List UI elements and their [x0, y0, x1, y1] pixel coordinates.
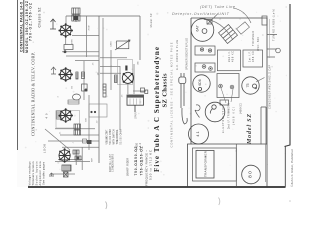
tube V1 6A7	[58, 23, 73, 38]
svg-text:TUNING KNOB (Left): TUNING KNOB (Left)	[273, 9, 276, 41]
faint outer right line	[269, 19, 271, 58]
svg-text:TONE CONTROL: TONE CONTROL	[117, 129, 119, 145]
wire	[86, 16, 88, 57]
small box	[83, 139, 87, 143]
voice coil box	[62, 165, 71, 171]
wire	[48, 140, 99, 142]
small blob component	[87, 140, 92, 144]
75 leader	[256, 78, 265, 83]
capacitor C1	[82, 84, 88, 91]
scan noise	[25, 5, 287, 184]
tube V2 6D6	[58, 67, 73, 82]
IF can B1	[72, 8, 80, 21]
wire	[68, 101, 79, 103]
svg-text:750-OZ: 750-OZ	[134, 160, 138, 175]
wire	[133, 90, 146, 92]
svg-text:CONTINENTAL LICENSE – SEE SPEC: CONTINENTAL LICENSE – SEE SPECIAL NOTES …	[170, 42, 174, 147]
wire top bus	[66, 15, 140, 17]
trimmer box 3	[217, 74, 239, 98]
svg-text:A.C. CORD & PLUG: A.C. CORD & PLUG	[176, 40, 179, 70]
wire loop rect	[89, 104, 107, 117]
resistor R1	[76, 72, 78, 79]
svg-text:4 1: 4 1	[195, 130, 200, 136]
svg-text:VOLUME CONT.: VOLUME CONT.	[107, 129, 109, 144]
svg-text:75: 75	[246, 84, 250, 88]
wire	[65, 16, 67, 24]
tuning capacitor	[115, 40, 130, 50]
wire	[110, 50, 112, 90]
bottom-right corner vertical	[284, 147, 286, 188]
svg-text:756-OZ: 756-OZ	[140, 160, 144, 175]
wire	[100, 66, 120, 68]
IF can B3	[73, 150, 81, 160]
svg-text:156-OZ: 156-OZ	[140, 146, 144, 161]
svg-text:OSC. 600: OSC. 600	[257, 36, 260, 51]
svg-text:(456KC): (456KC)	[240, 103, 243, 114]
svg-text:2nd I.F. TRIMMERS: 2nd I.F. TRIMMERS	[228, 103, 231, 129]
page tint	[17, 0, 290, 187]
svg-text:456 KC: 456 KC	[252, 51, 255, 62]
left rule	[17, 0, 19, 150]
svg-text:TRIMMER: TRIMMER	[252, 31, 255, 46]
junction dots	[90, 111, 92, 113]
component row	[68, 100, 79, 104]
box with X	[64, 172, 69, 177]
right page edge	[285, 4, 291, 147]
svg-text:GANG: GANG	[109, 41, 112, 47]
resistor R1b	[82, 72, 85, 79]
svg-text:SPEAKER SOCKET & PLUG: SPEAKER SOCKET & PLUG	[186, 38, 189, 70]
wire	[100, 72, 121, 74]
svg-text:6D6: 6D6	[198, 79, 202, 85]
top edge component	[207, 20, 212, 25]
antenna A4	[49, 173, 54, 176]
trimmer box 1	[195, 63, 215, 72]
wire	[72, 34, 99, 36]
divider 2	[264, 144, 266, 182]
svg-text:1M: 1M	[97, 72, 99, 75]
wire	[55, 161, 90, 163]
svg-text:Model SZ: Model SZ	[247, 114, 253, 145]
resistor stack	[103, 84, 106, 97]
antenna A2	[51, 67, 56, 74]
6D6 circle	[193, 75, 210, 92]
svg-text:(DET) Tube Line: (DET) Tube Line	[200, 5, 235, 9]
shield rect V3	[118, 60, 133, 85]
wire	[75, 17, 77, 22]
svg-text:CONDENSERS: CONDENSERS	[113, 154, 115, 172]
tube V4 42	[58, 108, 73, 123]
svg-text:8 0: 8 0	[248, 171, 254, 178]
header rule	[23, 0, 25, 53]
svg-text:500,000 OHM: 500,000 OHM	[110, 129, 112, 144]
speaker plug curl	[182, 108, 187, 124]
svg-text:See index pages: See index pages	[42, 161, 46, 185]
upper trimmer box	[195, 46, 215, 55]
svg-text:LOOK: LOOK	[43, 144, 47, 153]
wire	[75, 150, 77, 165]
grid cap V3	[125, 66, 127, 71]
svg-text:Trimmers location: Trimmers location	[31, 161, 35, 186]
tube V5 80	[59, 148, 70, 163]
svg-text:.1MFD: .1MFD	[71, 38, 73, 45]
tube V3 75	[122, 72, 133, 83]
output tube circle	[205, 102, 225, 122]
svg-text:Alignment data: Alignment data	[38, 161, 42, 186]
curl mark 1	[106, 202, 107, 210]
transformer outer box	[193, 148, 237, 181]
divider	[235, 144, 237, 186]
trimmer leaders	[221, 88, 233, 103]
svg-text:CONTINENTAL PAGE 14-5: CONTINENTAL PAGE 14-5	[20, 2, 24, 52]
wire	[83, 61, 85, 100]
svg-text:©John F. Rider, Publisher: ©John F. Rider, Publisher	[290, 149, 294, 187]
small box below trimmers	[220, 100, 229, 105]
curl mark 2	[219, 198, 220, 206]
wire	[50, 173, 75, 175]
svg-text:Detector-Oscillator UNIT: Detector-Oscillator UNIT	[172, 12, 230, 16]
svg-text:TRANSFORMER: TRANSFORMER	[204, 150, 208, 177]
svg-text:750-OZ,756-OZ: 750-OZ,756-OZ	[28, 3, 32, 41]
AC plug	[179, 73, 186, 108]
svg-text:SZ Chassis: SZ Chassis	[161, 73, 168, 107]
resistor R2	[115, 75, 118, 83]
speaker output transformer	[127, 95, 144, 112]
wire	[60, 134, 99, 136]
bottom page edge	[28, 186, 285, 188]
scattered component value labels	[57, 25, 139, 162]
tiny marks	[136, 142, 143, 150]
IF box 4	[217, 50, 240, 71]
svg-text:CONDENSER AND SHIELD CAP: CONDENSER AND SHIELD CAP	[269, 65, 272, 109]
wire	[66, 55, 99, 57]
oval can	[73, 94, 81, 100]
wire	[65, 36, 67, 45]
svg-text:CONTINENTAL RADIO & TELEV. COR: CONTINENTAL RADIO & TELEV. CORP.	[30, 52, 35, 136]
svg-text:Chassis SZ: Chassis SZ	[37, 8, 41, 28]
coil box left of V4	[56, 111, 61, 119]
svg-text:WITH SWITCH: WITH SWITCH	[114, 129, 116, 144]
leader A	[233, 8, 251, 23]
dial cord arc	[204, 20, 233, 41]
wire	[81, 147, 83, 170]
svg-text:Model SZ: Model SZ	[149, 13, 153, 27]
svg-text:150-OZ: 150-OZ	[134, 146, 138, 161]
svg-text:(456 KC): (456 KC)	[233, 107, 236, 125]
svg-text:456 KC: 456 KC	[232, 51, 235, 62]
parts list block	[107, 129, 123, 145]
svg-text:40: 40	[45, 113, 49, 119]
svg-text:6A7: 6A7	[196, 25, 200, 31]
wire	[100, 57, 127, 59]
wire	[62, 146, 99, 148]
wire	[133, 64, 135, 94]
svg-text:Voltage readings: Voltage readings	[28, 161, 32, 186]
chassis outline	[188, 18, 268, 187]
knob ticks	[267, 35, 280, 58]
svg-text:250M: 250M	[88, 25, 90, 30]
wire	[119, 66, 121, 130]
component block	[64, 45, 73, 53]
right bracket	[261, 107, 266, 145]
wire	[58, 159, 82, 161]
6D6 grid curl	[195, 105, 200, 118]
slanted bracket 2	[237, 22, 250, 34]
wire	[102, 18, 104, 90]
svg-text:SPKR: SPKR	[135, 112, 138, 119]
resistor R3	[141, 88, 148, 94]
antenna A1	[50, 19, 56, 29]
wire	[75, 60, 99, 62]
svg-text:50M: 50M	[85, 118, 87, 122]
slanted condenser assembly	[219, 24, 238, 43]
41 circle	[189, 124, 209, 144]
svg-text:Socket layouts: Socket layouts	[35, 161, 39, 186]
wire	[55, 128, 95, 130]
IF can B2	[74, 124, 81, 135]
IF box 5	[243, 50, 263, 67]
shield rect V4	[56, 111, 80, 129]
wire	[88, 95, 90, 150]
wire	[62, 51, 99, 53]
dot mark	[289, 200, 291, 202]
wire right bus	[98, 16, 100, 163]
knob box top	[262, 16, 267, 25]
75 circle	[242, 77, 259, 94]
leader B	[207, 14, 218, 25]
speaker circle	[191, 19, 214, 42]
transformer inner box	[196, 151, 214, 179]
wire	[139, 16, 141, 60]
svg-text:JOHN F. RIDER: JOHN F. RIDER	[128, 158, 130, 176]
leader diagonal	[45, 129, 70, 150]
svg-text:ELECTROLYTIC: ELECTROLYTIC	[222, 107, 225, 133]
svg-text:50,000 OHM: 50,000 OHM	[121, 129, 123, 144]
80 circle	[242, 165, 261, 184]
wire	[127, 84, 129, 95]
